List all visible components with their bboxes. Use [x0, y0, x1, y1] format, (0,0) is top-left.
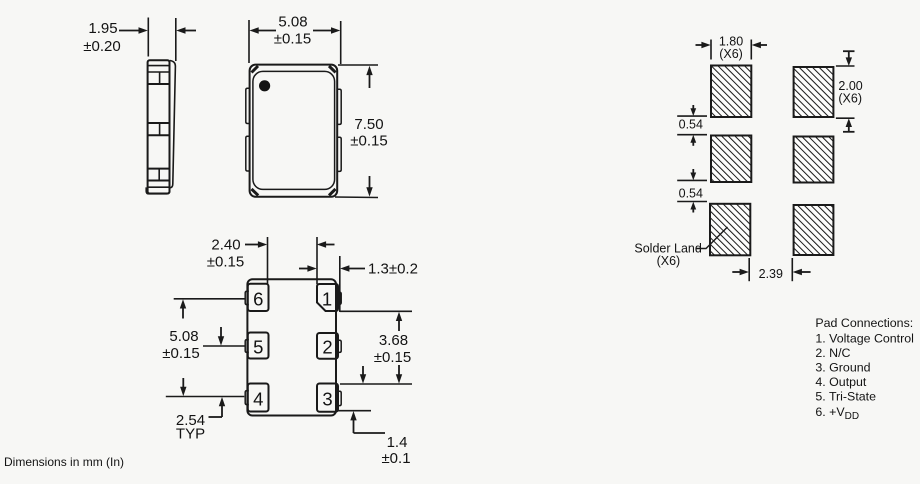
svg-text:1. Voltage Control: 1. Voltage Control — [815, 332, 914, 346]
solder land label — [634, 227, 727, 268]
pad 5 — [245, 340, 249, 353]
pin1 dot — [259, 80, 270, 91]
svg-text:4. Output: 4. Output — [815, 375, 867, 389]
svg-text:Dimensions in mm (In): Dimensions in mm (In) — [4, 455, 124, 469]
svg-text:2.40: 2.40 — [211, 237, 240, 254]
land pad row3 left — [710, 204, 750, 256]
svg-text:(X6): (X6) — [719, 47, 743, 61]
land pad row1 left — [711, 66, 751, 118]
dim 1.80 (X6) — [696, 35, 768, 62]
dim 2.39 — [732, 258, 810, 281]
bottom view body — [247, 279, 336, 415]
pad 4 — [245, 391, 249, 405]
dim 7.50 ±0.15 (right of top view) — [335, 65, 388, 198]
svg-text:5: 5 — [253, 337, 263, 358]
svg-text:1.95: 1.95 — [88, 20, 117, 37]
svg-text:1.3±0.2: 1.3±0.2 — [368, 261, 418, 278]
dim 2.40 ±0.15 — [207, 237, 335, 285]
svg-text:0.54: 0.54 — [679, 187, 703, 201]
svg-text:4: 4 — [253, 389, 263, 410]
svg-text:1.4: 1.4 — [387, 434, 408, 451]
dim 2.54 TYP — [176, 327, 225, 443]
pad 1 (chamfered) — [338, 292, 341, 304]
svg-text:2. N/C: 2. N/C — [815, 346, 850, 360]
dim 1.3 ±0.2 — [299, 256, 418, 312]
svg-text:±0.15: ±0.15 — [274, 31, 311, 48]
svg-text:±0.15: ±0.15 — [350, 133, 387, 150]
svg-text:2: 2 — [322, 337, 332, 358]
corner chamfer marks — [252, 66, 259, 73]
pad 6 — [245, 291, 249, 304]
dim 0.54 upper — [677, 105, 707, 146]
svg-text:(X6): (X6) — [838, 92, 862, 106]
svg-text:2.39: 2.39 — [759, 267, 783, 281]
svg-text:±0.15: ±0.15 — [374, 349, 411, 366]
svg-text:1: 1 — [322, 289, 332, 310]
svg-text:3. Ground: 3. Ground — [815, 361, 870, 375]
svg-text:0.54: 0.54 — [679, 118, 703, 132]
dim 0.54 lower — [677, 169, 707, 213]
svg-text:3.68: 3.68 — [379, 332, 408, 349]
land pad row2 left — [711, 136, 751, 183]
svg-text:6: 6 — [253, 289, 263, 310]
side view body — [146, 60, 175, 194]
svg-text:TYP: TYP — [176, 426, 205, 443]
svg-text:±0.15: ±0.15 — [162, 345, 199, 362]
svg-text:(X6): (X6) — [657, 254, 681, 268]
dim 5.08 ±0.15 (left of bottom view) — [162, 299, 245, 397]
svg-text:7.50: 7.50 — [354, 116, 383, 133]
top view inner lid — [253, 71, 335, 189]
side view bottom lip — [146, 187, 169, 193]
dim 1.95 ±0.20 — [83, 18, 196, 62]
svg-text:3: 3 — [322, 389, 332, 410]
dim 1.4 ±0.1 — [338, 366, 411, 467]
dim 5.08 ±0.15 (top of top view) — [249, 14, 341, 65]
top view outer body — [250, 65, 338, 197]
land pad row1 right — [794, 67, 834, 117]
dim 2.00 (X6) — [836, 51, 863, 132]
land pad row2 right — [794, 137, 834, 183]
left castellation bumps — [246, 88, 251, 123]
dim 3.68 ±0.15 — [340, 311, 412, 384]
svg-text:±0.1: ±0.1 — [381, 450, 410, 467]
svg-text:±0.20: ±0.20 — [83, 38, 120, 55]
right castellation bumps — [337, 89, 342, 124]
svg-text:5. Tri-State: 5. Tri-State — [815, 390, 876, 404]
land pad row3 right — [794, 205, 834, 255]
svg-text:5.08: 5.08 — [169, 328, 198, 345]
svg-text:6. +VDD: 6. +VDD — [815, 405, 859, 422]
side view 3d offset edge — [170, 61, 176, 189]
svg-text:Pad Connections:: Pad Connections: — [815, 316, 913, 330]
pad 2 — [338, 340, 341, 352]
pad 3 — [338, 391, 341, 405]
svg-text:5.08: 5.08 — [278, 14, 307, 31]
svg-text:±0.15: ±0.15 — [207, 254, 244, 271]
